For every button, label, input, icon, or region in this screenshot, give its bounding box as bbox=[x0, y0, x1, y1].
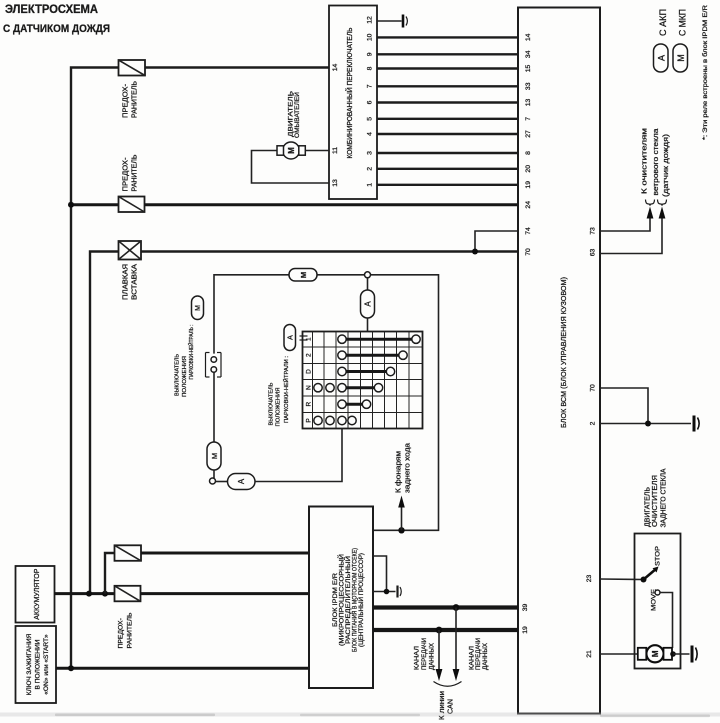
svg-text:заднего хода: заднего хода bbox=[405, 443, 412, 493]
svg-text:КОМБИНИРОВАННЫЙ ПЕРЕКЛЮЧАТЕЛЬ: КОМБИНИРОВАННЫЙ ПЕРЕКЛЮЧАТЕЛЬ bbox=[345, 27, 354, 158]
svg-text:STOP: STOP bbox=[655, 546, 662, 566]
svg-text:13: 13 bbox=[525, 99, 532, 107]
svg-text:M: M bbox=[299, 272, 308, 278]
svg-text:5: 5 bbox=[367, 117, 374, 121]
svg-text:К очистителям: К очистителям bbox=[640, 128, 649, 194]
svg-text:23: 23 bbox=[586, 575, 593, 583]
svg-text:АККУМУЛЯТОР: АККУМУЛЯТОР bbox=[34, 568, 41, 619]
svg-text:В ПОЛОЖЕНИИ: В ПОЛОЖЕНИИ bbox=[35, 639, 42, 689]
svg-text:A: A bbox=[237, 478, 246, 484]
svg-text:(ЦЕНТРАЛЬНЫЙ ПРОЦЕССОР): (ЦЕНТРАЛЬНЫЙ ПРОЦЕССОР) bbox=[356, 553, 365, 647]
svg-text:33: 33 bbox=[525, 82, 532, 90]
svg-text:ДАННЫХ: ДАННЫХ bbox=[482, 642, 489, 670]
svg-text:ОМЫВАТЕЛЕЙ: ОМЫВАТЕЛЕЙ bbox=[292, 92, 301, 138]
svg-text:8: 8 bbox=[367, 66, 374, 70]
svg-text:A: A bbox=[288, 335, 295, 340]
svg-text:С МКП: С МКП bbox=[678, 9, 688, 36]
svg-text:D: D bbox=[306, 369, 313, 374]
svg-text:ПОЛОЖЕНИЯ: ПОЛОЖЕНИЯ bbox=[182, 356, 188, 397]
svg-text:14: 14 bbox=[332, 64, 339, 72]
svg-text:P: P bbox=[306, 418, 313, 422]
svg-text:20: 20 bbox=[525, 165, 532, 173]
svg-text:7: 7 bbox=[525, 117, 532, 121]
svg-text:M: M bbox=[210, 453, 219, 459]
svg-text:1: 1 bbox=[306, 337, 313, 341]
svg-text:ЗАДНЕГО СТЕКЛА: ЗАДНЕГО СТЕКЛА bbox=[661, 468, 668, 527]
svg-text:ЭЛЕКТРОСХЕМА: ЭЛЕКТРОСХЕМА bbox=[5, 4, 98, 16]
svg-text:С ДАТЧИКОМ ДОЖДЯ: С ДАТЧИКОМ ДОЖДЯ bbox=[3, 23, 110, 35]
svg-text:ПРЕДОХ-: ПРЕДОХ- bbox=[123, 83, 130, 118]
svg-text:7: 7 bbox=[367, 84, 374, 88]
svg-text:ветрового стекла: ветрового стекла bbox=[651, 129, 660, 196]
svg-text:ПЕРЕДАЧИ: ПЕРЕДАЧИ bbox=[421, 638, 428, 670]
svg-text:ДАННЫХ: ДАННЫХ bbox=[429, 642, 436, 670]
svg-text:39: 39 bbox=[522, 604, 529, 612]
svg-text:R: R bbox=[306, 402, 313, 407]
svg-text:19: 19 bbox=[522, 626, 529, 634]
svg-text:БЛОК ВСМ (БЛОК УПРАВЛЕНИЯ КУЗО: БЛОК ВСМ (БЛОК УПРАВЛЕНИЯ КУЗОВОМ) bbox=[561, 277, 568, 428]
svg-text:РАНИТЕЛЬ: РАНИТЕЛЬ bbox=[132, 154, 139, 191]
svg-text:A: A bbox=[364, 301, 373, 307]
svg-text:13: 13 bbox=[332, 179, 339, 187]
svg-text:21: 21 bbox=[586, 650, 593, 658]
svg-text:N: N bbox=[306, 385, 313, 390]
svg-text:73: 73 bbox=[590, 227, 597, 235]
svg-text:1: 1 bbox=[367, 183, 374, 187]
svg-text:34: 34 bbox=[525, 50, 532, 58]
svg-text:12: 12 bbox=[367, 16, 374, 24]
svg-text:*: Эти реле встроены в блок IP: *: Эти реле встроены в блок IPDM E/R bbox=[701, 5, 709, 140]
svg-text:15: 15 bbox=[525, 65, 532, 73]
svg-text:РАНИТЕЛЬ: РАНИТЕЛЬ bbox=[132, 81, 139, 118]
svg-text:19: 19 bbox=[525, 181, 532, 189]
svg-text:РАНИТЕЛЬ: РАНИТЕЛЬ bbox=[127, 612, 134, 649]
svg-text:ПАРКОВКИ-НЕЙТРАЛЬ :: ПАРКОВКИ-НЕЙТРАЛЬ : bbox=[187, 324, 195, 379]
svg-text:6: 6 bbox=[367, 100, 374, 104]
svg-text:ВЫКЛЮЧАТЕЛЬ: ВЫКЛЮЧАТЕЛЬ bbox=[175, 354, 181, 396]
svg-text:ПОЛОЖЕНИЯ: ПОЛОЖЕНИЯ bbox=[276, 388, 282, 427]
svg-text:24: 24 bbox=[525, 201, 532, 209]
svg-text:ПЛАВКАЯ: ПЛАВКАЯ bbox=[123, 264, 130, 300]
svg-text:ДВИГАТЕЛЬ: ДВИГАТЕЛЬ bbox=[645, 487, 652, 527]
svg-text:«ON» или «START»: «ON» или «START» bbox=[43, 634, 50, 695]
svg-text:4: 4 bbox=[367, 132, 374, 136]
svg-text:К фонарям: К фонарям bbox=[396, 451, 403, 493]
svg-text:14: 14 bbox=[525, 33, 532, 41]
svg-text:CAN: CAN bbox=[448, 699, 455, 714]
svg-text:M: M bbox=[676, 54, 686, 62]
svg-text:9: 9 bbox=[367, 52, 374, 56]
svg-text:ВСТАВКА: ВСТАВКА bbox=[132, 264, 139, 300]
svg-text:70: 70 bbox=[590, 384, 597, 392]
svg-text:(датчик дождя): (датчик дождя) bbox=[661, 134, 670, 197]
svg-text:11: 11 bbox=[332, 147, 339, 154]
svg-text:ОЧИСТИТЕЛЯ: ОЧИСТИТЕЛЯ bbox=[652, 475, 659, 527]
svg-text:63: 63 bbox=[590, 249, 597, 257]
svg-text:M: M bbox=[287, 147, 296, 154]
svg-text:M: M bbox=[195, 305, 202, 311]
svg-text:ПРЕДОХ-: ПРЕДОХ- bbox=[118, 618, 125, 648]
svg-text:ВЫКЛЮЧАТЕЛЬ: ВЫКЛЮЧАТЕЛЬ bbox=[269, 382, 275, 425]
svg-text:2: 2 bbox=[590, 421, 597, 425]
svg-text:27: 27 bbox=[525, 130, 532, 138]
svg-text:КЛЮЧ ЗАЖИГАНИЯ: КЛЮЧ ЗАЖИГАНИЯ bbox=[26, 633, 33, 695]
svg-text:3: 3 bbox=[367, 151, 374, 155]
svg-text:ПРЕДОХ-: ПРЕДОХ- bbox=[123, 157, 130, 192]
svg-text:M: M bbox=[651, 650, 660, 657]
svg-text:ПАРКОВКИ-НЕЙТРАЛИ :: ПАРКОВКИ-НЕЙТРАЛИ : bbox=[282, 356, 290, 423]
svg-text:70: 70 bbox=[525, 248, 532, 256]
svg-text:2: 2 bbox=[306, 353, 313, 357]
svg-text:2: 2 bbox=[367, 167, 374, 171]
svg-text:10: 10 bbox=[367, 33, 374, 41]
svg-text:8: 8 bbox=[525, 151, 532, 155]
svg-text:74: 74 bbox=[525, 227, 532, 235]
svg-text:A: A bbox=[657, 55, 667, 61]
svg-text:С АКП: С АКП bbox=[658, 9, 668, 36]
svg-text:ПЕРЕДАЧИ: ПЕРЕДАЧИ bbox=[475, 638, 482, 670]
svg-text:КАНАЛ: КАНАЛ bbox=[414, 646, 421, 670]
